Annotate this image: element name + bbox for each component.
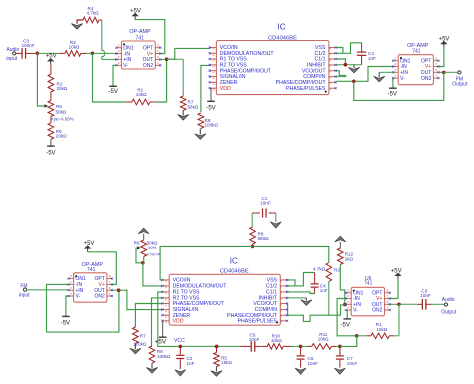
junction node O (C6) <box>299 345 303 349</box>
svg-text:1: 1 <box>109 292 111 296</box>
svg-text:10kΩ: 10kΩ <box>376 327 387 332</box>
svg-text:12: 12 <box>212 64 216 68</box>
svg-text:2: 2 <box>70 280 72 284</box>
junction node M (C2) <box>179 345 183 349</box>
wire U6 -IN feedback <box>337 299 357 336</box>
op-amp U1 left pin +IN <box>116 58 121 60</box>
wire node P up to node K <box>340 336 357 347</box>
wire PHASE/COMP/I/OUT to U3 -IN <box>336 67 394 82</box>
svg-text:Audio: Audio <box>6 47 19 53</box>
wire +5V to U3 V+ <box>438 47 444 66</box>
wire U1 OUT to node C <box>160 58 166 60</box>
IC U5 right pin COMP/IN <box>280 309 287 311</box>
svg-text:R6: R6 <box>134 240 140 245</box>
wire C5 to R10 <box>261 345 263 347</box>
IC U2 left pin R1 TO VSS <box>210 58 217 60</box>
IC U2 left pin SIGNAL/IN <box>210 76 217 78</box>
svg-text:PHASE/PULSES: PHASE/PULSES <box>238 318 278 324</box>
wire C1/2 to C4 loop <box>336 43 362 54</box>
svg-text:CD4046BE: CD4046BE <box>268 35 297 41</box>
junction node E <box>352 80 356 84</box>
ground on INHIBIT line (demodulator) <box>305 298 307 301</box>
svg-text:+5V: +5V <box>391 269 402 275</box>
svg-text:7: 7 <box>435 62 437 66</box>
ground -5V below U3 V- <box>392 78 394 88</box>
ground below C6 <box>295 368 306 374</box>
svg-text:ON2: ON2 <box>143 63 154 69</box>
wire R6 to R5 <box>50 117 52 123</box>
node FM input terminal <box>23 288 26 291</box>
wire node O to R11 <box>301 345 307 347</box>
svg-text:10nF: 10nF <box>420 293 431 298</box>
op-amp U1 right pin ON2 <box>155 64 160 66</box>
ground -5V below U1 V- <box>113 65 116 86</box>
IC U5 left pin R2 TO VSS <box>162 297 169 299</box>
svg-text:6: 6 <box>157 55 159 59</box>
wire VSS jog <box>336 48 343 54</box>
svg-text:15kΩ: 15kΩ <box>221 360 232 365</box>
op-amp U4 left pin ON1 <box>69 278 74 280</box>
wire R1 TO VSS to VCC rail <box>158 292 176 347</box>
wire C1/1 to C4 (demodulator) <box>287 292 315 294</box>
svg-text:IC: IC <box>230 257 238 266</box>
junction node F (U3 out) <box>442 71 446 75</box>
svg-text:IC: IC <box>278 22 286 31</box>
svg-text:4.7kΩ: 4.7kΩ <box>87 11 100 16</box>
resistor R9 680 <box>250 227 256 244</box>
wire node L to C3 output cap <box>399 303 418 305</box>
svg-text:1: 1 <box>435 74 437 78</box>
op-amp U4 right pin V+ <box>107 283 112 285</box>
svg-text:5: 5 <box>347 288 349 292</box>
IC U5 right pin VSS <box>280 279 287 281</box>
svg-text:13: 13 <box>164 303 168 307</box>
svg-text:-5V: -5V <box>109 89 118 95</box>
resistor R7 56k <box>182 59 184 96</box>
ground -5V below U4 V- <box>66 296 69 316</box>
power VCC arrow above RV R6 <box>138 228 149 234</box>
ground -5V below U6 V- <box>346 310 347 319</box>
ground on INHIBIT line <box>353 65 355 68</box>
svg-text:-5V: -5V <box>206 105 215 111</box>
wire U6 OUT to node L <box>390 303 399 305</box>
svg-text:15: 15 <box>164 314 168 318</box>
wire R2 to R6 <box>50 92 52 100</box>
op-amp U1 left pin ON1 <box>116 47 121 49</box>
resistor R10 10k <box>262 345 267 347</box>
capacitor C7 10nF <box>339 346 341 355</box>
wire R2 down to staircase <box>328 282 330 316</box>
IC U5 right pin C1/2 <box>280 285 287 287</box>
svg-text:7: 7 <box>387 294 389 298</box>
svg-text:-5V: -5V <box>46 151 55 157</box>
svg-text:+5V: +5V <box>155 338 167 345</box>
svg-text:3: 3 <box>70 286 72 290</box>
wire Audio input to C3 <box>16 52 22 54</box>
wire node L down to R1 <box>398 304 400 336</box>
svg-text:16: 16 <box>212 87 216 91</box>
resistor R5 15k (demodulator) <box>216 346 218 352</box>
svg-text:V-: V- <box>76 294 81 300</box>
wire +5V to U1 V+ <box>135 19 165 53</box>
IC U2 right pin PHASE/COMP/I/OUT <box>329 81 336 83</box>
svg-text:R2: R2 <box>334 268 340 273</box>
svg-text:11: 11 <box>212 58 216 61</box>
svg-text:10nF: 10nF <box>249 337 260 342</box>
svg-text:Audio: Audio <box>442 297 455 303</box>
ground below R7 <box>182 110 184 115</box>
IC U2 left pin DEMODULATION/OUT <box>210 52 217 54</box>
svg-text:6: 6 <box>435 68 437 72</box>
junction node B <box>91 52 95 56</box>
op-amp U6 right pin V+ <box>385 298 390 300</box>
svg-text:14: 14 <box>212 76 216 80</box>
capacitor C3 10nF (output) <box>418 303 423 305</box>
junction node L (U6 out) <box>397 303 401 307</box>
wire VSS jog (demodulator) <box>287 280 295 286</box>
wiper arrow of RV R6 (demodulator) <box>137 246 141 249</box>
svg-text:100kΩ: 100kΩ <box>157 354 171 359</box>
junction node D <box>344 63 348 67</box>
svg-text:3: 3 <box>395 68 397 72</box>
wire node A down to potentiometer wiper <box>37 53 43 106</box>
svg-text:10: 10 <box>164 285 168 289</box>
ground on U3 +IN <box>379 71 393 73</box>
svg-text:VCO/OUT: VCO/OUT <box>253 301 277 307</box>
svg-text:V-: V- <box>400 76 405 82</box>
svg-text:14: 14 <box>164 309 168 313</box>
op-amp U1 right pin V+ <box>155 53 160 55</box>
IC U2 right pin VCO/OUT <box>329 70 336 72</box>
op-amp U3 right pin ON2 <box>433 77 438 79</box>
svg-text:680Ω: 680Ω <box>258 236 270 241</box>
svg-text:4.7kΩ: 4.7kΩ <box>313 266 326 271</box>
wire node A to R3 <box>37 52 59 54</box>
wire node B to op-amp -IN <box>93 52 117 54</box>
wire C1 left to R9 <box>251 213 253 227</box>
wire +5V to U6 V+ <box>390 279 398 298</box>
svg-text:741: 741 <box>87 267 96 273</box>
svg-text:8: 8 <box>387 288 389 292</box>
op-amp U3 right pin OPT <box>433 60 438 62</box>
svg-text:13: 13 <box>212 70 216 74</box>
op-amp U3 right pin V+ <box>433 66 438 68</box>
op-amp U4 left pin +IN <box>69 289 74 291</box>
wire R10 to node O <box>292 345 301 347</box>
op-amp U3 left pin -IN <box>393 66 398 68</box>
resistor R7 120k (demodulator) <box>135 304 162 328</box>
wire C3 to Audio Output <box>432 303 445 305</box>
junction node C (U1 out) <box>165 57 169 61</box>
op-amp U6 741 (audio output) <box>351 287 384 316</box>
wire +5V to U4 V+ <box>88 252 117 285</box>
svg-text:50kΩ: 50kΩ <box>56 109 67 114</box>
resistor R2 20k <box>48 74 54 92</box>
wiper arrow of RV R6 <box>44 104 48 107</box>
svg-text:12: 12 <box>164 297 168 301</box>
svg-text:KYE=A: KYE=A <box>147 251 160 256</box>
op-amp U4 right pin OUT <box>107 289 112 291</box>
svg-text:3: 3 <box>347 300 349 304</box>
wire node G to SIGNAL/IN <box>119 290 162 309</box>
capacitor C4 1nF <box>361 43 363 52</box>
svg-text:10kΩ: 10kΩ <box>271 338 282 343</box>
svg-text:input: input <box>19 292 30 298</box>
svg-text:V-: V- <box>353 308 358 314</box>
svg-text:4: 4 <box>70 292 72 296</box>
svg-text:20kΩ: 20kΩ <box>57 86 68 91</box>
capacitor C2 1nF <box>179 346 181 354</box>
IC U2 left pin ZENER <box>210 81 217 83</box>
wire VCC rail <box>176 345 240 347</box>
ground below C7 <box>335 368 346 374</box>
svg-text:8: 8 <box>435 56 437 60</box>
op-amp U1 right pin OPT <box>155 47 160 49</box>
svg-text:10kΩ: 10kΩ <box>136 92 147 97</box>
svg-text:1nF: 1nF <box>368 56 376 61</box>
IC U5 left pin PHASE/COMP/II/OUT <box>162 303 169 305</box>
svg-text:16: 16 <box>164 320 168 324</box>
op-amp U1 left pin -IN <box>116 53 121 55</box>
op-amp U6 left pin +IN <box>346 303 351 305</box>
capacitor C4 1nF (demodulator) <box>314 273 316 284</box>
op-amp U1 left pin V- <box>116 64 121 66</box>
wire node J to U6 +IN <box>345 303 346 305</box>
resistor R11 10k <box>307 345 312 347</box>
wire R6 to DEMODULATION/OUT <box>143 257 145 263</box>
svg-text:Kye=A 50%: Kye=A 50% <box>51 116 74 121</box>
wire VCO/OUT jog down <box>336 71 346 77</box>
IC U5 right pin PHASE/PULSES <box>280 320 287 322</box>
junction node N (R5) <box>215 345 219 349</box>
IC U2 right pin C1/2 <box>329 52 336 54</box>
svg-text:4: 4 <box>347 306 349 310</box>
op-amp U4 741 (demodulator input) <box>74 273 107 302</box>
capacitor C5 10nF <box>240 345 251 347</box>
IC U2 left pin R2 TO VSS <box>210 64 217 66</box>
resistor R8 100k <box>201 65 210 112</box>
op-amp U3 right pin OUT <box>433 71 438 73</box>
IC U2 CD4046BE (modulator PLL) <box>216 41 329 95</box>
resistor R3 10k <box>60 52 65 54</box>
svg-text:5: 5 <box>70 274 72 278</box>
svg-text:PHASE/PULSES: PHASE/PULSES <box>286 86 326 92</box>
wire R1 to OUT node <box>155 59 166 102</box>
wire R6 wiper loop <box>136 248 143 263</box>
svg-text:Output: Output <box>452 81 468 87</box>
svg-text:4: 4 <box>395 74 397 78</box>
junction node H (R6 bottom) <box>141 261 145 265</box>
op-amp U3 left pin ON1 <box>393 60 398 62</box>
capacitor C3 100nF <box>21 48 23 59</box>
wire +5V to R2 <box>50 65 52 74</box>
svg-text:56kΩ: 56kΩ <box>188 105 199 110</box>
junction node P (C7) <box>338 345 342 349</box>
IC U5 left pin VDD <box>162 320 169 322</box>
wire ground to R4 <box>77 20 83 24</box>
svg-text:741: 741 <box>135 35 144 41</box>
resistor R8 100k (demodulator) <box>152 298 163 346</box>
op-amp U3 741 (FM output) <box>398 55 433 85</box>
ground -5V below IC U2 VDD pin <box>210 88 212 101</box>
op-amp U4 left pin -IN <box>69 283 74 285</box>
wire C1/1 to node D <box>336 59 346 65</box>
IC U2 left pin VCO/IN <box>210 47 217 49</box>
node Audio Output terminal <box>444 303 447 306</box>
wire U3 feedback to node E <box>354 72 444 100</box>
ground below R8 (demodulator) <box>151 363 153 368</box>
ground below R5 (demodulator) <box>216 367 218 372</box>
svg-text:VDD: VDD <box>220 86 231 92</box>
wire VCC to R6 <box>143 234 145 240</box>
IC U5 right pin INHIBIT <box>280 297 287 299</box>
svg-text:2: 2 <box>347 294 349 298</box>
svg-text:Output: Output <box>441 310 457 316</box>
IC U5 right pin VCO/OUT <box>280 303 287 305</box>
IC U5 right pin PHASE/COMP/I/OUT <box>280 314 287 316</box>
wire node C to VCO/IN of IC <box>167 48 210 59</box>
svg-text:15: 15 <box>212 81 216 85</box>
junction node G (U4 out) <box>117 288 121 292</box>
svg-text:V-: V- <box>123 63 128 69</box>
svg-text:1nF: 1nF <box>320 288 328 293</box>
op-amp U1 right pin OUT <box>155 58 160 60</box>
IC U5 CD4046BE (demodulator PLL) <box>169 274 280 325</box>
IC U2 left pin VDD <box>210 87 217 89</box>
svg-text:7: 7 <box>157 49 159 53</box>
IC U2 right pin COMP/IN <box>329 76 336 78</box>
svg-text:10: 10 <box>212 52 216 56</box>
op-amp U3 left pin +IN <box>393 71 398 73</box>
svg-text:7: 7 <box>109 280 111 284</box>
svg-text:20kΩ: 20kΩ <box>56 134 67 139</box>
potentiometer R6 50k (demodulator) <box>141 240 147 257</box>
svg-text:-5V: -5V <box>341 322 350 328</box>
wire R4 to op-amp +IN (with hop over -IN wire) <box>99 19 102 21</box>
ground below R7 (demodulator) <box>134 344 136 350</box>
wire C1 right to ground <box>275 213 277 222</box>
svg-text:100nF: 100nF <box>22 43 35 48</box>
svg-text:1nF: 1nF <box>187 361 195 366</box>
IC U2 right pin INHIBIT <box>329 64 336 66</box>
svg-text:VDD: VDD <box>173 318 184 324</box>
svg-text:ON2: ON2 <box>372 308 383 314</box>
resistor R1 10k feedback <box>93 53 127 102</box>
ground below R4 <box>71 24 82 30</box>
svg-text:-5V: -5V <box>61 321 70 327</box>
svg-text:10kΩ: 10kΩ <box>318 337 329 342</box>
wire C1/2 to C4 loop (demodulator) <box>287 273 315 286</box>
wire VCO/OUT staircase to node J <box>287 304 345 322</box>
op-amp U6 left pin -IN <box>346 298 351 300</box>
svg-text:ON2: ON2 <box>421 76 432 82</box>
op-amp U6 right pin OUT <box>385 303 390 305</box>
power +5V bar below IC U5 VDD pin <box>162 321 164 337</box>
wire R12 to node J <box>340 265 345 305</box>
wire COMP/IN <box>336 76 346 78</box>
junction node K (R1 left) <box>355 334 359 338</box>
svg-text:1kΩ: 1kΩ <box>345 256 354 261</box>
wire U3 OUT to FM output <box>438 71 443 73</box>
svg-text:10nF: 10nF <box>347 361 358 366</box>
svg-text:5: 5 <box>395 56 397 60</box>
op-amp U1 741 (modulator input) <box>121 41 155 69</box>
wire INHIBIT line <box>336 64 362 66</box>
IC U5 left pin R1 TO VSS <box>162 291 169 293</box>
resistor R5 20k <box>48 123 54 139</box>
svg-text:1: 1 <box>157 61 159 65</box>
op-amp U6 right pin ON2 <box>385 309 390 311</box>
svg-text:10kΩ: 10kΩ <box>69 44 80 49</box>
svg-text:5: 5 <box>118 43 120 47</box>
svg-text:-5V: -5V <box>388 91 397 97</box>
svg-text:4: 4 <box>118 61 120 65</box>
IC U2 left pin PHASE/COMP/II/OUT <box>210 70 217 72</box>
svg-text:8: 8 <box>109 274 111 278</box>
wire C3 to node A <box>35 52 38 54</box>
IC U2 right pin VSS <box>329 47 336 49</box>
wire U4 OUT to node G <box>112 289 119 291</box>
svg-text:741: 741 <box>364 281 373 287</box>
IC U5 right pin C1/1 <box>280 291 287 293</box>
IC U5 left pin DEMODULATION/OUT <box>162 285 169 287</box>
wire FM input to U4 +IN <box>27 289 69 291</box>
IC U5 left pin ZENER <box>162 314 169 316</box>
svg-text:ON2: ON2 <box>95 294 106 300</box>
wire R11 to node P <box>336 345 340 347</box>
op-amp U4 right pin ON2 <box>107 295 112 297</box>
resistor R12 1k <box>339 242 341 248</box>
junction node J (U6 +IN) <box>343 303 347 307</box>
op-amp U4 right pin OPT <box>107 278 112 280</box>
node Audio input terminal <box>13 52 16 55</box>
svg-text:+5V: +5V <box>84 241 95 247</box>
wire R3 to node B <box>87 52 93 54</box>
svg-text:OP-AMP: OP-AMP <box>129 29 151 35</box>
svg-text:10nF: 10nF <box>260 201 271 206</box>
junction node I (R9 bottom) <box>251 245 255 249</box>
resistor R4 4.7k <box>83 17 99 23</box>
op-amp U6 left pin ON1 <box>346 292 351 294</box>
svg-text:PHASE/COMP/II/OUT: PHASE/COMP/II/OUT <box>173 301 225 307</box>
svg-text:50%: 50% <box>148 245 156 250</box>
ground below R8 <box>199 128 201 134</box>
svg-text:FM: FM <box>20 283 27 289</box>
ground -5V below R5 <box>50 139 52 146</box>
svg-text:10nF: 10nF <box>308 361 319 366</box>
capacitor C6 10nF <box>300 346 302 355</box>
svg-text:3: 3 <box>118 55 120 59</box>
svg-text:8: 8 <box>157 43 159 47</box>
IC U5 left pin SIGNAL/IN <box>162 309 169 311</box>
svg-text:11: 11 <box>164 291 168 294</box>
potentiometer R6 50k <box>48 100 54 116</box>
svg-text:741: 741 <box>412 48 421 54</box>
svg-text:VCC: VCC <box>174 338 185 344</box>
svg-text:input: input <box>6 56 17 62</box>
wire INHIBIT to ground (demodulator) <box>287 297 306 299</box>
ground below C1 <box>270 222 281 228</box>
wire U4 feedback loop <box>47 284 119 332</box>
svg-text:6: 6 <box>109 286 111 290</box>
svg-text:2: 2 <box>395 62 397 66</box>
op-amp U3 left pin V- <box>393 77 398 79</box>
resistor R2 4.7k (demodulator) <box>326 263 332 282</box>
wire top rail (VCO/IN to R2) <box>160 246 329 280</box>
svg-text:100kΩ: 100kΩ <box>205 123 219 128</box>
power VCC arrow above R12 <box>335 236 346 242</box>
IC U5 left pin VCO/IN <box>162 279 169 281</box>
